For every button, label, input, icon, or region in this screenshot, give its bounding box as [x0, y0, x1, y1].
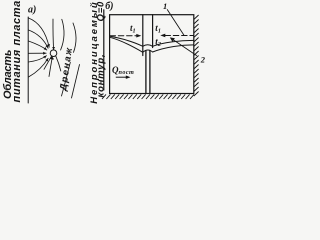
svg-text:1: 1 [163, 1, 167, 11]
svg-text:Q=0: Q=0 [95, 1, 106, 22]
svg-text:контур,: контур, [95, 54, 106, 98]
svg-text:а): а) [28, 5, 36, 16]
svg-text:питания пласта: питания пласта [11, 0, 23, 102]
svg-text:2: 2 [200, 55, 206, 65]
svg-text:б): б) [105, 1, 113, 12]
